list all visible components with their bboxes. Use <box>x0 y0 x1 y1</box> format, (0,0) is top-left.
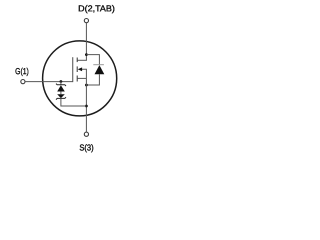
terminal S pin circle <box>84 132 88 136</box>
wire: drain L to top bar <box>78 59 87 61</box>
body arrow line <box>82 69 87 85</box>
wire: diode anode down and left to source node <box>86 74 99 85</box>
wire: zener stem from gate wire <box>60 82 62 85</box>
node: source-zener junction dot <box>85 105 88 108</box>
zener Z1 cathode bar (top, with tails) <box>56 84 66 86</box>
wire: drain node to diode top <box>86 55 99 65</box>
wire: source vertical to S terminal <box>85 85 87 132</box>
wire: source bar to vertical <box>78 77 87 79</box>
svg-text:G(1): G(1) <box>15 66 29 76</box>
body arrowhead <box>78 67 82 71</box>
terminal D pin circle <box>84 19 88 23</box>
zener Z2 cathode bar (bottom, with tails) <box>56 97 66 99</box>
wire: drain vertical from D terminal to drain node <box>85 23 87 61</box>
node: drain junction dot <box>85 53 88 56</box>
wire: zener bottom stem to source node <box>61 98 87 106</box>
wire: zener middle stem <box>60 92 62 95</box>
diode D1 body (anode triangle) <box>95 65 105 74</box>
zener Z2 triangle (anode down) <box>57 94 65 98</box>
svg-text:S(3): S(3) <box>79 143 93 153</box>
gate plate <box>72 57 74 82</box>
channel bar body <box>76 66 78 72</box>
node: source-body junction dot <box>85 84 88 87</box>
transistor body circle <box>43 41 117 116</box>
channel bar drain <box>76 58 78 63</box>
channel bar source <box>76 76 78 82</box>
svg-text:D(2,TAB): D(2,TAB) <box>78 3 115 13</box>
terminal G pin circle <box>21 80 25 84</box>
zener Z1 triangle (anode up) <box>57 85 65 91</box>
node: gate-zener junction dot <box>60 80 63 83</box>
wire: gate from G terminal to gate plate <box>25 81 73 83</box>
diode D1 cathode bar <box>93 64 104 66</box>
